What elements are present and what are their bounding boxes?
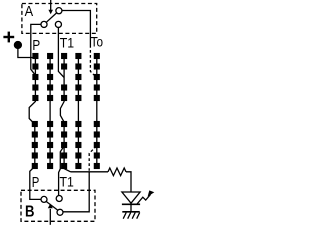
wire: T0 branch into box B switch [63, 172, 89, 212]
pushbutton actuator arrow (box A) [48, 0, 53, 14]
wire: SA contact to riser T1 [58, 27, 64, 77]
wire: T0 dashed feeder into riser T0 [90, 45, 96, 78]
svg-text:B: B [25, 203, 34, 220]
svg-text:T1: T1 [60, 35, 74, 51]
label T1 (bottom) [60, 174, 74, 190]
junction box B (dashed enclosure) [21, 190, 95, 221]
riser T1 upper clamps (col 3) [61, 53, 67, 101]
riser T0 lower clamps (col 5) [94, 121, 100, 169]
riser T0 upper clamps (col 5) [94, 53, 100, 101]
switch SA contact (T1 side) [55, 21, 61, 27]
label P (bottom) [32, 173, 40, 190]
wire: SA throw to T0 drop [62, 11, 91, 46]
switch SB pole contact (P side) [41, 196, 47, 202]
riser spare lower clamps (col 4) [75, 121, 81, 169]
wire: LED cathode to ground [130, 204, 132, 212]
riser spare upper clamps (col 2) [47, 53, 53, 101]
riser T0 wire (col 5) [96, 53, 98, 169]
label P (top) [32, 36, 40, 53]
switch SB contact (T1 side) [56, 196, 62, 202]
ground [122, 212, 139, 219]
LED emission arrow [137, 190, 154, 204]
label T1 (top) [60, 35, 74, 51]
riser P lower clamps [32, 121, 38, 169]
label B [25, 203, 34, 220]
svg-text:P: P [32, 173, 40, 190]
riser spare lower clamps (col 2) [47, 121, 53, 169]
svg-text:P: P [32, 36, 40, 53]
switch SA pole contact (P side) [41, 21, 47, 27]
pushbutton actuator arrow (box B) [48, 204, 53, 225]
resistor R [108, 168, 126, 176]
riser spare wire (col 2) [49, 53, 51, 169]
supply plus symbol [3, 32, 14, 43]
supply terminal dot [14, 42, 21, 49]
switch SB lever [46, 201, 58, 210]
wire: T0 dashed branch toward box B [89, 146, 96, 171]
LED D triangle [122, 192, 140, 203]
LED D cathode bar [122, 203, 140, 205]
svg-text:To: To [91, 33, 103, 49]
svg-text:T1: T1 [60, 174, 74, 190]
riser T1 wire (col 3) with jogs [60, 53, 70, 172]
switch SA lever [46, 13, 56, 22]
junction box A (dashed enclosure) [22, 4, 97, 34]
wire: resistor to LED anode [126, 172, 131, 192]
wire: SA pole to riser P [31, 24, 41, 75]
riser spare wire (col 4) [77, 53, 79, 169]
switch SA throw contact (to T0) [56, 8, 62, 14]
riser spare upper clamps (col 4) [75, 53, 81, 101]
wire: supply to riser P clamp [18, 46, 33, 58]
label T0 (top) [91, 33, 103, 49]
switch SB throw contact (T0 side) [57, 209, 63, 215]
wire: T1 branch to box B switch [59, 146, 65, 196]
wire: LED feed from riser T1 [71, 171, 109, 173]
riser T1 lower clamps (col 3) [61, 121, 67, 169]
label A [25, 2, 34, 19]
svg-text:A: A [25, 2, 34, 19]
riser P wire (col 1) with jogs [29, 53, 41, 199]
riser P upper clamps [32, 53, 38, 101]
